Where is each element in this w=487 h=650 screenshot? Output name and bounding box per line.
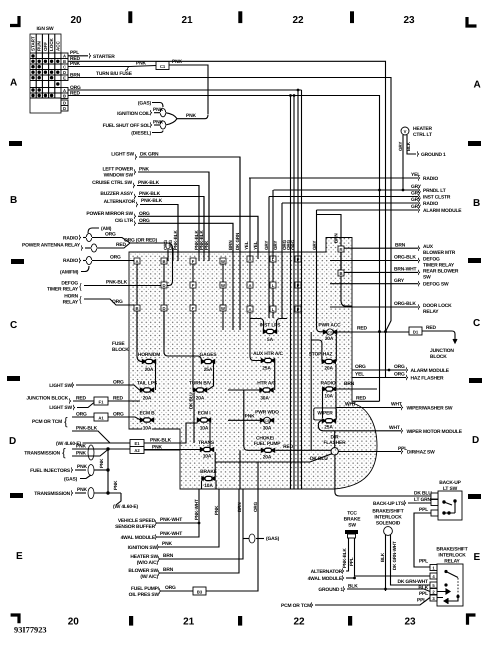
svg-text:(W/O A/C): (W/O A/C)	[137, 560, 159, 566]
svg-text:GAGES: GAGES	[200, 352, 218, 358]
svg-text:E1: E1	[134, 441, 140, 446]
svg-text:RADIO: RADIO	[320, 380, 335, 386]
svg-text:5A: 5A	[267, 337, 274, 343]
svg-text:BRN: BRN	[334, 233, 339, 243]
svg-text:A: A	[248, 283, 251, 288]
svg-text:ORG: ORG	[105, 232, 116, 238]
svg-text:PPL: PPL	[70, 50, 79, 56]
svg-text:GRY: GRY	[411, 197, 422, 203]
svg-text:WHT: WHT	[391, 401, 402, 407]
svg-text:FUSE: FUSE	[112, 341, 125, 347]
svg-text:INST CLSTR: INST CLSTR	[423, 195, 451, 201]
svg-text:22: 22	[293, 617, 305, 628]
svg-text:OIL PRES SW: OIL PRES SW	[129, 592, 160, 598]
svg-text:HEATER SW: HEATER SW	[130, 554, 158, 560]
svg-text:REAR BLOWER: REAR BLOWER	[423, 268, 459, 274]
svg-text:10A: 10A	[203, 454, 212, 460]
svg-text:BRAKE: BRAKE	[344, 517, 362, 523]
svg-text:IGNITION COIL: IGNITION COIL	[117, 111, 150, 117]
svg-text:A: A	[474, 80, 481, 91]
svg-text:START: START	[31, 36, 36, 51]
svg-text:ORG: ORG	[291, 239, 296, 250]
svg-text:WIPER: WIPER	[317, 410, 333, 416]
svg-text:BRN: BRN	[344, 381, 355, 387]
svg-text:ECM I: ECM I	[198, 411, 212, 417]
svg-text:BRAKE/SHIFT: BRAKE/SHIFT	[372, 509, 403, 515]
svg-text:CTRL LT: CTRL LT	[413, 132, 432, 138]
svg-text:30A: 30A	[260, 395, 269, 401]
svg-text:(GAS): (GAS)	[64, 477, 78, 483]
svg-text:BRN: BRN	[163, 553, 174, 559]
svg-text:RELAY: RELAY	[63, 300, 79, 306]
svg-text:FUEL INJECTORS: FUEL INJECTORS	[30, 468, 71, 474]
svg-text:B: B	[135, 306, 138, 311]
svg-text:W: W	[221, 259, 225, 264]
svg-text:PPL: PPL	[419, 507, 428, 513]
svg-text:PNK: PNK	[162, 541, 172, 547]
svg-text:L: L	[272, 283, 275, 288]
svg-text:21: 21	[181, 15, 193, 26]
svg-text:STARTER: STARTER	[93, 54, 115, 60]
svg-text:4WAL MODULE: 4WAL MODULE	[308, 576, 343, 582]
svg-text:STOP-HAZ: STOP-HAZ	[309, 351, 333, 357]
svg-text:BRN: BRN	[228, 240, 233, 250]
svg-text:{: {	[64, 416, 68, 428]
svg-text:PNK: PNK	[77, 487, 87, 493]
svg-text:PNK-BLK: PNK-BLK	[106, 280, 128, 286]
svg-text:RADIO: RADIO	[63, 258, 78, 264]
svg-text:C: C	[473, 318, 480, 329]
svg-text:C: C	[10, 320, 17, 331]
svg-text:DK BLU: DK BLU	[189, 392, 194, 409]
svg-text:ACC: ACC	[55, 41, 60, 51]
svg-text:L: L	[272, 307, 275, 312]
svg-text:WIPER MOTOR MODULE: WIPER MOTOR MODULE	[407, 429, 463, 435]
svg-text:BRAKE/SHIFT: BRAKE/SHIFT	[436, 547, 467, 553]
svg-text:PPL: PPL	[419, 559, 428, 565]
svg-text:BLOWER SW: BLOWER SW	[128, 568, 158, 574]
svg-text:25A: 25A	[324, 425, 333, 431]
svg-text:LOCK: LOCK	[49, 38, 54, 51]
svg-text:DK GRN-WHT: DK GRN-WHT	[397, 579, 428, 585]
svg-text:CIG LTR: CIG LTR	[115, 218, 134, 224]
svg-text:(W/ 4L60-E): (W/ 4L60-E)	[113, 504, 139, 510]
svg-text:ECM B: ECM B	[139, 411, 155, 417]
svg-text:PNK: PNK	[113, 480, 118, 490]
svg-text:PPL: PPL	[419, 591, 428, 597]
svg-text:YEL: YEL	[244, 241, 249, 250]
svg-text:PNK: PNK	[99, 458, 104, 468]
svg-text:B: B	[473, 198, 480, 209]
svg-text:A: A	[63, 54, 66, 59]
svg-text:10A: 10A	[200, 426, 209, 432]
svg-text:GRY: GRY	[411, 204, 422, 210]
svg-text:SOLENOID: SOLENOID	[376, 521, 401, 527]
svg-text:ORG: ORG	[165, 585, 176, 591]
svg-text:RED: RED	[283, 444, 293, 450]
svg-text:B: B	[63, 94, 66, 99]
svg-text:A: A	[135, 259, 138, 264]
svg-text:W: W	[221, 283, 225, 288]
svg-text:20A: 20A	[263, 455, 272, 461]
svg-text:JUNCTION: JUNCTION	[430, 348, 454, 354]
svg-text:DEFOG: DEFOG	[423, 257, 440, 263]
svg-text:YEL: YEL	[253, 241, 258, 250]
svg-text:22: 22	[292, 15, 304, 26]
svg-text:POWER MIRROR SW: POWER MIRROR SW	[86, 211, 133, 217]
svg-text:10A: 10A	[143, 426, 152, 432]
svg-text:C: C	[63, 65, 66, 70]
svg-text:ORG-BLK: ORG-BLK	[394, 255, 416, 261]
svg-text:ORG-BLK: ORG-BLK	[394, 301, 416, 307]
svg-text:DEFOG: DEFOG	[61, 281, 78, 287]
svg-text:HEATER: HEATER	[413, 126, 432, 132]
svg-text:{: {	[79, 295, 82, 304]
svg-text:SW: SW	[423, 274, 431, 280]
svg-text:PPL: PPL	[349, 557, 354, 566]
svg-text:E: E	[63, 76, 66, 81]
svg-text:B: B	[10, 195, 17, 206]
svg-text:LT GRN: LT GRN	[414, 497, 432, 503]
svg-text:(GAS): (GAS)	[266, 536, 280, 542]
svg-text:D: D	[63, 101, 66, 106]
svg-text:RADIO: RADIO	[423, 176, 438, 182]
svg-text:INTERLOCK: INTERLOCK	[438, 553, 466, 559]
svg-text:BACK-UP LTS: BACK-UP LTS	[373, 501, 405, 507]
svg-text:A: A	[248, 307, 251, 312]
svg-text:ALARM MODULE: ALARM MODULE	[423, 208, 462, 214]
svg-text:B: B	[162, 259, 165, 264]
svg-text:BLK: BLK	[380, 552, 385, 562]
svg-text:ORG: ORG	[394, 364, 405, 370]
svg-text:HAZ FLASHER: HAZ FLASHER	[411, 376, 444, 382]
svg-text:BRN: BRN	[163, 567, 174, 573]
svg-text:ALTERNATOR: ALTERNATOR	[311, 569, 343, 575]
svg-text:21: 21	[183, 617, 195, 628]
svg-text:A2: A2	[134, 448, 140, 453]
svg-text:BACK-UP: BACK-UP	[439, 480, 461, 486]
svg-text:D: D	[63, 70, 66, 75]
svg-text:PCM OR TCM: PCM OR TCM	[32, 419, 62, 425]
svg-text:GROUND 1: GROUND 1	[318, 587, 343, 593]
svg-text:AUX: AUX	[423, 244, 434, 250]
svg-text:PRNDL LT: PRNDL LT	[423, 188, 446, 194]
svg-text:F1: F1	[99, 399, 105, 404]
svg-text:PNK-BLK: PNK-BLK	[141, 198, 163, 204]
svg-text:GRY: GRY	[398, 142, 403, 151]
svg-text:GRY: GRY	[394, 278, 405, 284]
svg-text:PNK: PNK	[186, 113, 196, 119]
svg-text:ALARM MODULE: ALARM MODULE	[411, 368, 450, 374]
svg-text:GRY: GRY	[411, 184, 422, 190]
svg-text:INST LPS: INST LPS	[260, 322, 282, 328]
svg-text:RADIO: RADIO	[423, 201, 438, 207]
svg-text:(DIESEL): (DIESEL)	[131, 131, 151, 137]
svg-text:PNK-WHT: PNK-WHT	[194, 499, 199, 520]
svg-text:23: 23	[403, 15, 415, 26]
svg-text:HORN/DM: HORN/DM	[138, 352, 160, 358]
svg-text:ORG: ORG	[394, 372, 405, 378]
svg-text:SW: SW	[348, 523, 356, 529]
svg-text:10A: 10A	[324, 394, 333, 400]
svg-text:TRANSMISSION: TRANSMISSION	[24, 451, 60, 457]
svg-text:JUNCTION BLOCK: JUNCTION BLOCK	[26, 396, 68, 402]
svg-text:TAIL LPS: TAIL LPS	[137, 381, 158, 387]
svg-text:C8: C8	[265, 419, 270, 423]
svg-text:WHT: WHT	[389, 425, 400, 431]
svg-text:WINDOW SW: WINDOW SW	[104, 173, 134, 179]
svg-text:20: 20	[70, 15, 82, 26]
svg-text:20A: 20A	[196, 396, 205, 402]
svg-text:SENSOR BUFFER: SENSOR BUFFER	[115, 524, 156, 530]
svg-text:V: V	[404, 129, 407, 134]
svg-text:BRN: BRN	[395, 242, 406, 248]
svg-text:ORG: ORG	[253, 501, 258, 512]
svg-text:4WAL MODULE: 4WAL MODULE	[121, 535, 156, 541]
svg-text:DK GRN: DK GRN	[235, 232, 240, 250]
svg-text:ORG: ORG	[355, 364, 366, 370]
svg-text:20A: 20A	[143, 396, 152, 402]
svg-text:ORG: ORG	[110, 255, 121, 261]
svg-text:RED: RED	[426, 325, 436, 331]
svg-text:D1: D1	[413, 329, 419, 334]
svg-text:D: D	[472, 435, 479, 446]
svg-text:DK GRN-WHT: DK GRN-WHT	[392, 541, 397, 570]
svg-text:TCC: TCC	[347, 511, 357, 517]
svg-text:R: R	[339, 247, 342, 252]
svg-text:GRY: GRY	[264, 241, 269, 250]
svg-text:GROUND 1: GROUND 1	[421, 152, 446, 158]
svg-text:F: F	[192, 259, 195, 264]
svg-text:30A: 30A	[263, 425, 272, 431]
svg-text:PWR WDO: PWR WDO	[255, 410, 279, 416]
svg-text:(GAS): (GAS)	[138, 101, 152, 107]
svg-text:POWER ANTENNA RELAY: POWER ANTENNA RELAY	[22, 243, 81, 249]
svg-text:TRANSMISSION: TRANSMISSION	[34, 491, 70, 497]
svg-text:BLK: BLK	[418, 585, 428, 591]
svg-text:OFF: OFF	[43, 42, 48, 51]
svg-text:F: F	[192, 306, 195, 311]
svg-text:B3: B3	[197, 589, 203, 594]
svg-text:PPL: PPL	[417, 598, 426, 604]
svg-text:DIR/HAZ SW: DIR/HAZ SW	[407, 450, 435, 456]
svg-text:D: D	[63, 106, 66, 111]
svg-text:CRUISE CTRL SW: CRUISE CTRL SW	[92, 180, 132, 186]
svg-text:25A: 25A	[262, 365, 271, 371]
svg-text:DEFOG SW: DEFOG SW	[423, 282, 449, 288]
svg-text:LIGHT SW: LIGHT SW	[49, 383, 72, 389]
svg-text:(W/ A/C): (W/ A/C)	[140, 574, 158, 580]
svg-text:PNK-BLK: PNK-BLK	[173, 230, 178, 250]
svg-text:PCM OR TCM: PCM OR TCM	[281, 603, 311, 609]
svg-text:30A: 30A	[325, 336, 334, 342]
svg-text:TURN B/U FUSE: TURN B/U FUSE	[96, 71, 133, 77]
svg-text:RUN: RUN	[37, 41, 42, 51]
svg-text:(AM/FM): (AM/FM)	[60, 270, 79, 276]
svg-text:BLOCK: BLOCK	[112, 347, 129, 353]
svg-text:PNK: PNK	[214, 505, 219, 515]
svg-text:25A: 25A	[204, 367, 213, 373]
svg-text:B: B	[63, 59, 66, 64]
svg-text:D: D	[9, 436, 16, 447]
svg-text:PNK: PNK	[172, 59, 182, 65]
svg-text:PPL: PPL	[398, 446, 407, 452]
svg-text:ALTERNATOR: ALTERNATOR	[104, 199, 136, 205]
svg-text:PNK: PNK	[204, 240, 209, 250]
svg-text:TIMER RELAY: TIMER RELAY	[423, 263, 455, 269]
svg-text:PNK-WHT: PNK-WHT	[160, 517, 182, 523]
svg-text:VEHICLE SPEED: VEHICLE SPEED	[118, 518, 156, 524]
svg-text:HTR A/C: HTR A/C	[257, 381, 276, 387]
svg-text:WIPER/WASHER SW: WIPER/WASHER SW	[407, 406, 453, 412]
svg-text:93I77923: 93I77923	[14, 625, 47, 634]
svg-text:FUEL SHUT OFF SOL: FUEL SHUT OFF SOL	[103, 123, 151, 129]
svg-text:WHT: WHT	[345, 402, 356, 408]
svg-text:BLOWER MTR: BLOWER MTR	[423, 250, 456, 256]
svg-text:20: 20	[68, 617, 80, 628]
svg-text:F: F	[192, 283, 195, 288]
svg-text:RELAY: RELAY	[423, 309, 439, 315]
svg-text:A: A	[10, 78, 17, 89]
svg-text:{: {	[79, 282, 82, 291]
svg-text:DOOR LOCK: DOOR LOCK	[423, 303, 452, 309]
svg-text:10A: 10A	[204, 483, 213, 489]
svg-text:E: E	[16, 551, 23, 562]
svg-text:PNK: PNK	[77, 464, 87, 470]
svg-text:B: B	[339, 271, 342, 276]
svg-text:IGNITION SW: IGNITION SW	[128, 545, 158, 551]
svg-text:C1: C1	[160, 64, 166, 69]
svg-text:TRANS: TRANS	[198, 440, 215, 446]
svg-text:LIGHT SW: LIGHT SW	[111, 152, 134, 158]
svg-text:RED: RED	[356, 396, 366, 402]
svg-text:(AM): (AM)	[101, 226, 112, 232]
svg-text:RADIO: RADIO	[63, 236, 78, 242]
svg-text:IGN SW: IGN SW	[36, 26, 54, 32]
svg-text:20A: 20A	[324, 365, 333, 371]
svg-text:BUZZER ASSY: BUZZER ASSY	[100, 191, 134, 197]
svg-text:D: D	[162, 283, 165, 288]
svg-text:W: W	[221, 306, 225, 311]
svg-text:C8: C8	[328, 331, 333, 335]
svg-text:HORN: HORN	[64, 294, 78, 300]
svg-text:YEL: YEL	[355, 372, 364, 378]
svg-text:FUEL PUMP/: FUEL PUMP/	[131, 586, 160, 592]
svg-text:E: E	[474, 552, 481, 563]
svg-text:A: A	[63, 88, 66, 93]
svg-text:AUX HTR A/C: AUX HTR A/C	[253, 351, 283, 357]
svg-text:RED: RED	[357, 326, 367, 332]
svg-text:LEFT POWER: LEFT POWER	[102, 167, 133, 173]
svg-text:LIGHT SW: LIGHT SW	[49, 405, 72, 411]
svg-text:GRY: GRY	[411, 191, 422, 197]
svg-text:PNK: PNK	[245, 414, 255, 420]
svg-text:PNK-BLK: PNK-BLK	[342, 548, 347, 568]
svg-text:23: 23	[404, 617, 416, 628]
svg-text:{: {	[62, 447, 66, 459]
svg-text:TIMER RELAY: TIMER RELAY	[47, 287, 79, 293]
svg-text:GRY: GRY	[273, 241, 278, 250]
svg-text:FUEL PUMP: FUEL PUMP	[254, 441, 282, 447]
svg-text:PNK-WHT: PNK-WHT	[160, 531, 182, 537]
svg-text:INTERLOCK: INTERLOCK	[374, 515, 402, 521]
svg-text:D: D	[162, 306, 165, 311]
svg-text:PWR ACC: PWR ACC	[318, 322, 341, 328]
svg-text:BLOCK: BLOCK	[430, 354, 447, 360]
svg-text:A1: A1	[98, 415, 104, 420]
svg-text:CHOKE/: CHOKE/	[256, 435, 275, 441]
svg-text:BRN-WHT: BRN-WHT	[394, 267, 416, 273]
svg-text:20A: 20A	[145, 367, 154, 373]
